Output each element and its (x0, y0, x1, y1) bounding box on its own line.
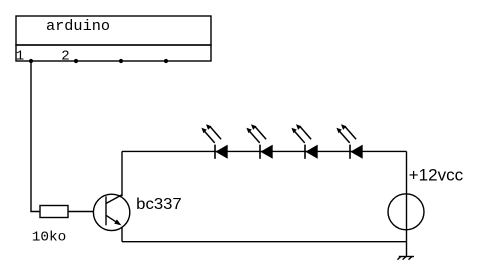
pin 1 junction dot (29, 59, 33, 63)
wire pin1 to resistor (31, 61, 40, 212)
wire resistor to base (68, 211, 94, 213)
svg-text:1: 1 (16, 48, 24, 64)
pin 4 junction dot (164, 59, 168, 63)
svg-text:arduino: arduino (46, 18, 110, 35)
svg-text:2: 2 (61, 48, 69, 64)
svg-text:+12vcc: +12vcc (409, 165, 464, 184)
transistor Q1 bc337 (93, 194, 129, 230)
ground (397, 257, 414, 260)
arduino U1 body box (16, 16, 211, 45)
svg-text:10ko: 10ko (32, 230, 67, 246)
wire collector up (121, 151, 123, 196)
power supply V1 (388, 194, 424, 230)
wire emitter to bottom rail (121, 227, 123, 242)
svg-text:bc337: bc337 (136, 196, 182, 213)
LED D1 (201, 124, 227, 159)
pin 2 junction dot (74, 59, 78, 63)
wire LED row (122, 150, 407, 152)
resistor R1 body (40, 206, 68, 218)
wire bottom rail (122, 241, 407, 243)
LED D3 (291, 124, 317, 159)
LED D2 (246, 124, 272, 159)
LED D4 (336, 124, 362, 159)
arduino pin header strip (16, 45, 211, 61)
wire supply vertical (406, 151, 408, 256)
pin 3 junction dot (119, 59, 123, 63)
